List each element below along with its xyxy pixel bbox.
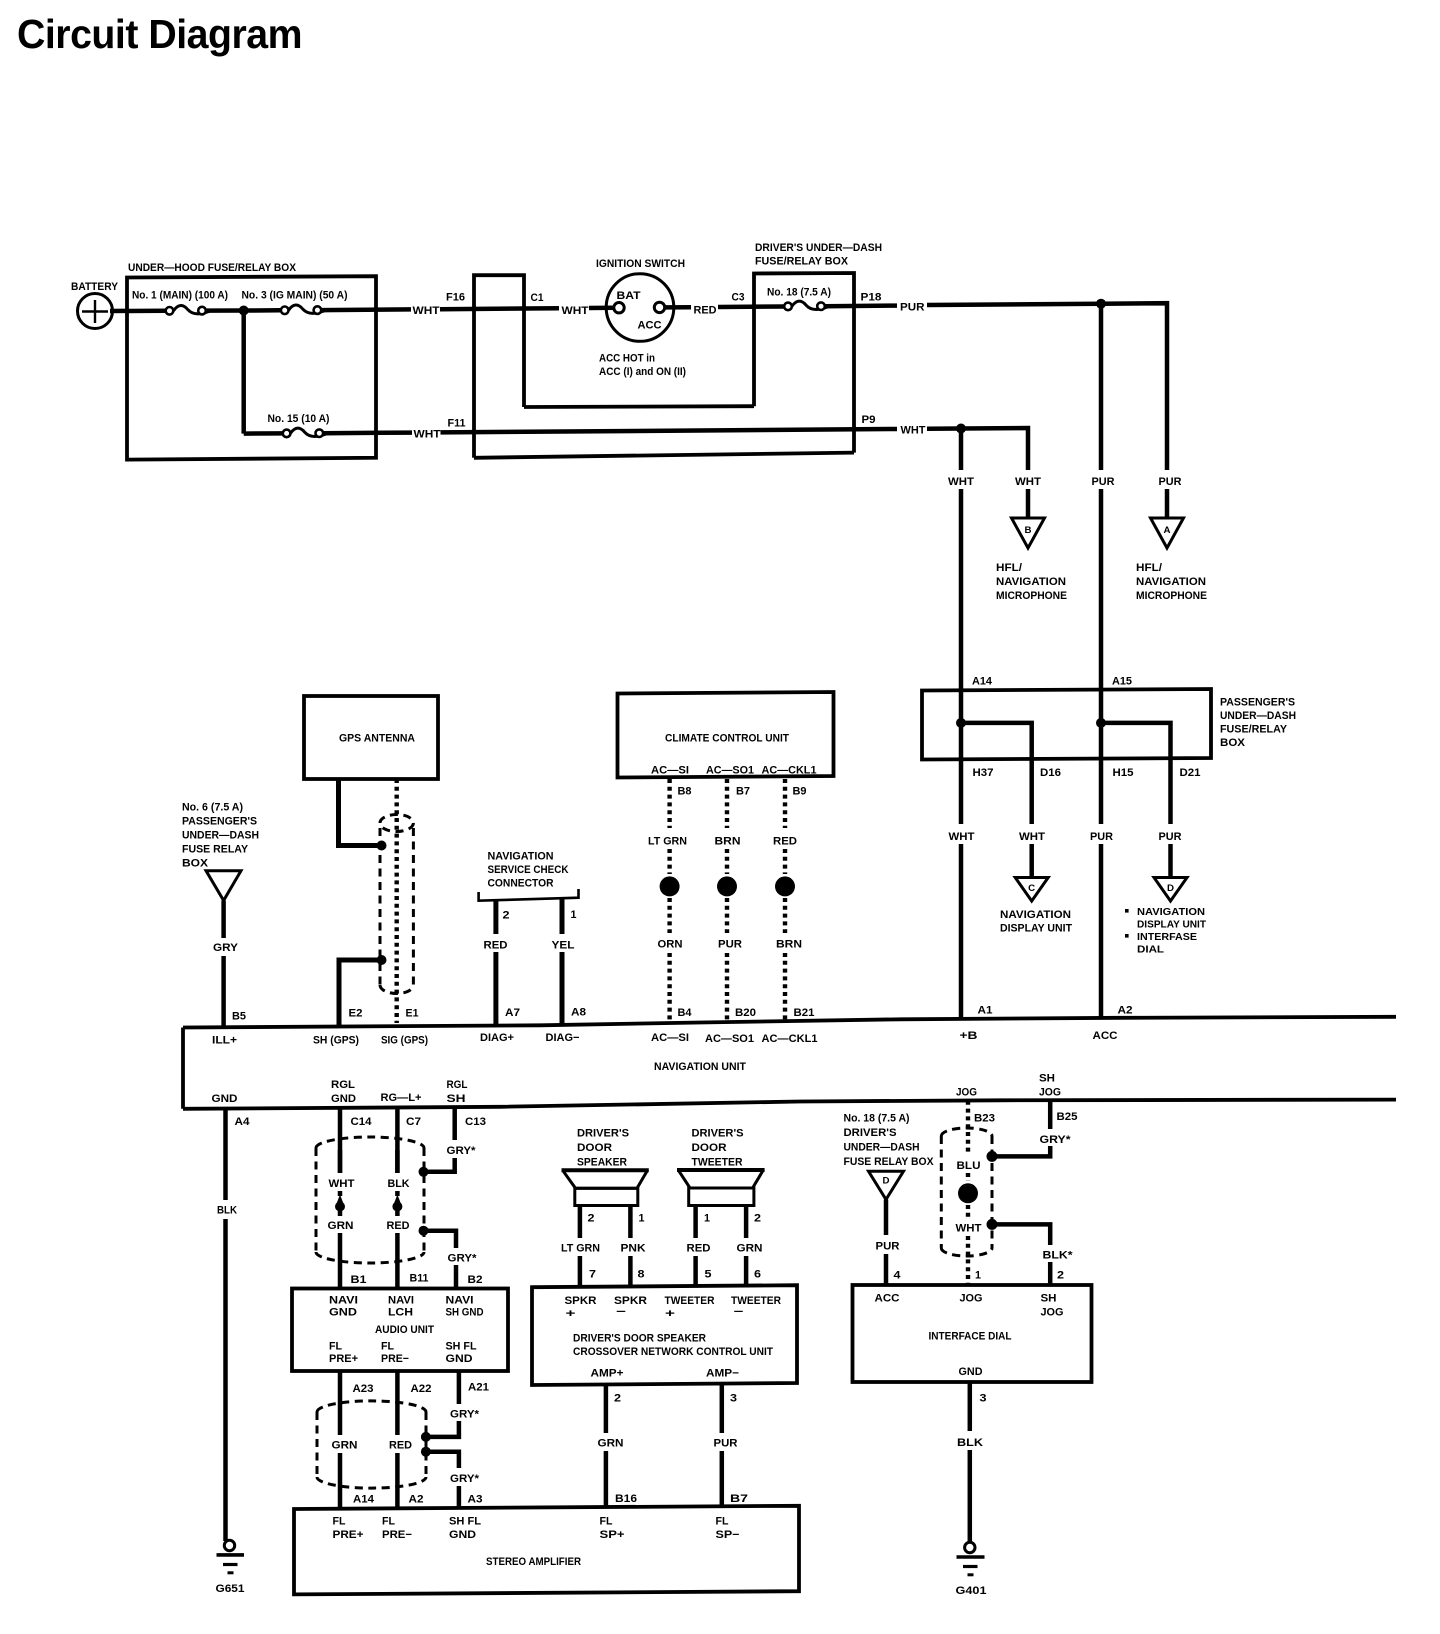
svg-text:BATTERY: BATTERY	[71, 281, 119, 293]
svg-text:SH FL: SH FL	[446, 1341, 477, 1353]
GPS antenna box	[304, 696, 438, 779]
svg-text:JOG: JOG	[960, 1293, 983, 1305]
svg-text:NAVI: NAVI	[446, 1295, 474, 1307]
battery B1	[71, 281, 119, 329]
svg-text:DOOR: DOOR	[692, 1142, 727, 1154]
svg-text:GRY*: GRY*	[450, 1409, 480, 1421]
wire A14 inside box	[959, 690, 964, 759]
svg-text:P9: P9	[862, 414, 876, 426]
svg-text:B1: B1	[351, 1274, 367, 1286]
wire PUR junction down to A15	[1099, 304, 1104, 690]
svg-text:ORN: ORN	[658, 939, 683, 951]
svg-text:WHT: WHT	[948, 476, 974, 488]
wire junction to fuse No.3	[244, 308, 281, 313]
svg-text:PUR: PUR	[876, 1241, 900, 1253]
svg-text:3: 3	[730, 1393, 737, 1405]
svg-text:WHT: WHT	[901, 425, 926, 437]
svg-text:RED: RED	[687, 1243, 711, 1255]
svg-text:+: +	[566, 1308, 576, 1320]
svg-text:B5: B5	[232, 1011, 246, 1023]
navigation unit box	[183, 1017, 1396, 1109]
svg-text:7: 7	[589, 1269, 596, 1281]
wire GRN A23 to A14	[332, 1371, 358, 1509]
connector triangle C	[1015, 878, 1048, 902]
passenger's under-dash fuse/relay box	[922, 689, 1296, 760]
svg-text:NAVIGATION UNIT: NAVIGATION UNIT	[654, 1061, 746, 1073]
svg-text:ACC: ACC	[638, 320, 662, 332]
svg-text:AC—CKL1: AC—CKL1	[762, 1033, 818, 1045]
svg-text:A1: A1	[978, 1005, 993, 1017]
shield dot jog bottom	[987, 1219, 998, 1230]
dotted wire AC-SO1 B7 to B20	[715, 779, 757, 1022]
svg-text:ACC HOT in: ACC HOT in	[599, 353, 655, 365]
junction at fuse box	[239, 306, 249, 316]
svg-text:2: 2	[1057, 1270, 1064, 1282]
svg-text:FUSE/RELAY: FUSE/RELAY	[1220, 724, 1288, 736]
svg-text:RGL: RGL	[447, 1079, 468, 1091]
svg-text:2: 2	[588, 1213, 595, 1225]
label HFL/NAVIGATION MICROPHONE (B)	[996, 562, 1067, 602]
note ACC HOT	[599, 353, 686, 379]
svg-text:UNDER—DASH: UNDER—DASH	[182, 830, 259, 842]
svg-text:INTERFASE: INTERFASE	[1137, 931, 1197, 943]
wire branch to D21	[1101, 723, 1171, 759]
wire YEL pin 1 to A8	[552, 898, 587, 1024]
label NAVIGATION DISPLAY UNIT (C)	[1000, 909, 1072, 935]
svg-text:GND: GND	[331, 1093, 356, 1105]
svg-text:UNDER—HOOD FUSE/RELAY BOX: UNDER—HOOD FUSE/RELAY BOX	[128, 262, 297, 274]
wire WHT corner to triangle B	[1026, 489, 1031, 517]
svg-text:SH FL: SH FL	[449, 1516, 481, 1528]
svg-text:2: 2	[614, 1393, 621, 1405]
svg-text:IGNITION SWITCH: IGNITION SWITCH	[596, 258, 685, 270]
svg-text:PASSENGER'S: PASSENGER'S	[182, 816, 257, 828]
svg-text:B7: B7	[736, 786, 750, 798]
svg-text:DRIVER'S: DRIVER'S	[844, 1127, 897, 1139]
nav unit bottom row labels	[212, 1073, 1062, 1106]
svg-text:GRN: GRN	[598, 1438, 624, 1450]
svg-text:GND: GND	[446, 1353, 473, 1365]
svg-text:1: 1	[975, 1270, 981, 1282]
svg-text:NAVIGATION: NAVIGATION	[1136, 576, 1206, 588]
ground G651	[216, 1540, 245, 1595]
wire PUR triangle D to ACC pin 4	[876, 1200, 902, 1286]
svg-text:DOOR: DOOR	[577, 1142, 612, 1154]
wire PUR D21 to triangle D	[1159, 759, 1182, 877]
svg-text:GND: GND	[449, 1529, 476, 1541]
svg-text:B8: B8	[678, 786, 692, 798]
svg-text:FUSE RELAY: FUSE RELAY	[182, 844, 249, 856]
connector triangle D (No.18)	[869, 1171, 904, 1199]
wire GRY* to B2	[428, 1231, 477, 1289]
svg-text:−: −	[734, 1306, 744, 1318]
pin C13 wire GRY* to shield	[428, 1107, 486, 1172]
svg-text:JOG: JOG	[1041, 1307, 1064, 1319]
svg-text:F16: F16	[446, 292, 465, 304]
wire WHT H37 to A1	[949, 759, 975, 1018]
svg-text:B16: B16	[615, 1493, 637, 1505]
wire GND A4 to G651	[217, 1109, 250, 1542]
svg-text:+: +	[665, 1308, 675, 1320]
connector triangle D	[1154, 878, 1187, 902]
svg-text:LT GRN: LT GRN	[561, 1243, 600, 1255]
svg-text:4: 4	[894, 1270, 902, 1282]
dotted wire AC-CKL1 B9 to B21	[773, 779, 815, 1021]
svg-text:WHT: WHT	[329, 1178, 355, 1190]
wire WHT/GRN C14 to B1	[328, 1150, 355, 1289]
svg-text:5: 5	[705, 1269, 712, 1281]
svg-text:LCH: LCH	[388, 1307, 413, 1319]
svg-text:−: −	[616, 1306, 626, 1318]
svg-text:DIAG−: DIAG−	[546, 1032, 580, 1044]
svg-text:A3: A3	[468, 1494, 483, 1506]
svg-text:G651: G651	[216, 1583, 245, 1595]
svg-text:WHT: WHT	[1019, 831, 1045, 843]
speaker pin 1 wire PNK to pin 8	[621, 1206, 646, 1288]
svg-text:JOG: JOG	[956, 1087, 977, 1099]
under-hood fuse/relay box	[127, 262, 376, 460]
svg-text:B21: B21	[794, 1007, 815, 1019]
svg-text:A4: A4	[235, 1116, 251, 1128]
svg-text:H15: H15	[1113, 767, 1134, 779]
label driver's door speaker	[577, 1128, 629, 1169]
svg-text:A7: A7	[505, 1007, 520, 1019]
ground G401	[956, 1542, 987, 1597]
wire PUR AMP- pin 3 to B7	[714, 1384, 749, 1506]
wire GRY* shield to A3	[430, 1452, 480, 1509]
wire RED ignition ACC to C3	[665, 291, 785, 316]
wire GRN AMP+ pin 2 to B16	[598, 1385, 638, 1507]
svg-text:Circuit Diagram: Circuit Diagram	[17, 11, 302, 57]
nav unit top row labels	[212, 1032, 818, 1047]
wire WHT junction down to A14	[959, 429, 964, 691]
svg-text:SP−: SP−	[716, 1529, 740, 1541]
fuse No.1 (MAIN) (100 A)	[132, 290, 228, 315]
svg-text:RED: RED	[484, 940, 508, 952]
svg-text:No. 3 (IG MAIN) (50 A): No. 3 (IG MAIN) (50 A)	[242, 290, 348, 302]
svg-text:BLK: BLK	[217, 1205, 237, 1217]
svg-text:RED: RED	[387, 1220, 410, 1232]
svg-text:PASSENGER'S: PASSENGER'S	[1220, 697, 1295, 709]
svg-text:GRY*: GRY*	[447, 1145, 477, 1157]
speaker pin 2 wire LT GRN to pin 7	[561, 1206, 600, 1288]
svg-text:PUR: PUR	[1159, 831, 1182, 843]
svg-text:B4: B4	[678, 1007, 693, 1019]
svg-text:TWEETER: TWEETER	[665, 1295, 715, 1307]
svg-text:RG—L+: RG—L+	[381, 1092, 422, 1104]
svg-text:1: 1	[704, 1213, 710, 1225]
jog shield cable cylinder	[941, 1128, 992, 1256]
shield dot jog top	[987, 1151, 998, 1162]
pin labels B1 B11 B2	[351, 1273, 483, 1287]
svg-text:BOX: BOX	[182, 858, 209, 870]
svg-text:BRN: BRN	[776, 939, 802, 951]
wire RED A22 to A2	[389, 1371, 412, 1509]
svg-text:GPS ANTENNA: GPS ANTENNA	[339, 733, 415, 745]
svg-text:BLU: BLU	[957, 1160, 981, 1172]
svg-text:E2: E2	[349, 1008, 363, 1020]
wire WHT C1 to ignition switch BAT	[531, 292, 615, 317]
shield dot lower cylinder top	[421, 1432, 431, 1442]
driver's door speaker crossover network control unit box	[532, 1285, 797, 1385]
svg-text:A22: A22	[411, 1383, 432, 1395]
svg-text:AMP+: AMP+	[591, 1368, 624, 1380]
svg-text:RGL: RGL	[331, 1079, 355, 1091]
svg-text:SH: SH	[447, 1093, 466, 1105]
shield connection dot top	[377, 841, 387, 851]
junction H15 branch	[1096, 718, 1106, 728]
ignition switch enclosure left narrow box	[474, 275, 524, 458]
svg-text:B20: B20	[735, 1007, 756, 1019]
driver's door speaker symbol	[562, 1170, 649, 1205]
wire PUR H15 to A2	[1090, 759, 1113, 1018]
wire GRY to B5	[213, 901, 246, 1028]
shield connection dot bottom	[377, 955, 387, 965]
stereo amplifier box	[294, 1506, 799, 1595]
svg-text:AC—CKL1: AC—CKL1	[762, 765, 817, 777]
svg-text:DRIVER'S: DRIVER'S	[692, 1128, 744, 1140]
svg-text:H37: H37	[973, 767, 994, 779]
svg-text:FL: FL	[716, 1516, 729, 1528]
svg-text:DRIVER'S DOOR SPEAKER: DRIVER'S DOOR SPEAKER	[573, 1333, 706, 1345]
svg-text:A21: A21	[468, 1382, 489, 1394]
svg-text:DIAG+: DIAG+	[480, 1032, 514, 1044]
fuse No.3 (IG MAIN) (50 A)	[242, 290, 348, 315]
svg-text:A: A	[1164, 525, 1172, 535]
svg-text:WHT: WHT	[1015, 476, 1041, 488]
svg-text:TWEETER: TWEETER	[692, 1157, 743, 1169]
svg-text:B11: B11	[410, 1273, 429, 1285]
svg-text:FL: FL	[333, 1516, 346, 1528]
dotted wire AC-SI B8 to B4	[648, 779, 692, 1023]
svg-text:B7: B7	[730, 1493, 748, 1505]
svg-text:SH (GPS): SH (GPS)	[313, 1035, 359, 1047]
svg-text:D16: D16	[1040, 767, 1061, 779]
wire PUR corner to triangle A	[1165, 489, 1170, 517]
svg-text:NAVIGATION: NAVIGATION	[488, 851, 554, 863]
svg-text:PUR: PUR	[714, 1438, 738, 1450]
svg-text:BLK: BLK	[957, 1437, 983, 1449]
svg-text:A14: A14	[972, 676, 993, 688]
svg-text:NAVIGATION: NAVIGATION	[996, 576, 1066, 588]
junction H37 branch	[956, 718, 966, 728]
svg-text:No. 1 (MAIN) (100 A): No. 1 (MAIN) (100 A)	[132, 290, 228, 302]
shield dot lower cylinder bottom	[421, 1447, 431, 1457]
svg-text:PRE+: PRE+	[329, 1353, 358, 1365]
connector triangle B	[1012, 518, 1045, 548]
wire branch to D16	[961, 723, 1032, 759]
svg-text:PUR: PUR	[1159, 476, 1182, 488]
tweeter pin 2 wire GRN to pin 6	[737, 1206, 763, 1287]
svg-text:LT GRN: LT GRN	[648, 836, 687, 848]
svg-text:MICROPHONE: MICROPHONE	[996, 590, 1067, 602]
svg-text:C14: C14	[351, 1116, 373, 1128]
svg-text:FUSE RELAY BOX: FUSE RELAY BOX	[844, 1156, 935, 1168]
svg-text:No. 18 (7.5 A): No. 18 (7.5 A)	[844, 1113, 910, 1125]
svg-text:AC—SO1: AC—SO1	[706, 765, 754, 777]
pin C14 wire	[340, 1108, 372, 1173]
svg-text:B9: B9	[793, 786, 807, 798]
svg-text:ACC: ACC	[875, 1293, 900, 1305]
svg-text:PRE−: PRE−	[381, 1353, 409, 1365]
svg-text:PRE+: PRE+	[333, 1529, 364, 1541]
svg-text:CROSSOVER NETWORK CONTROL UNIT: CROSSOVER NETWORK CONTROL UNIT	[573, 1346, 773, 1358]
svg-text:NAVI: NAVI	[388, 1295, 414, 1307]
svg-text:RED: RED	[773, 836, 797, 848]
shield dot upper cylinder top	[419, 1167, 429, 1177]
wire SH(GPS) from GPS antenna	[339, 779, 378, 846]
svg-text:SP+: SP+	[600, 1529, 625, 1541]
svg-text:NAVI: NAVI	[329, 1295, 358, 1307]
svg-text:WHT: WHT	[414, 428, 441, 440]
pin labels H37 D16 H15 D21	[973, 767, 1201, 779]
svg-text:AMP−: AMP−	[706, 1368, 739, 1380]
svg-text:AC—SI: AC—SI	[651, 765, 689, 777]
label NAVIGATION DISPLAY UNIT / INTERFACE DIAL (D)	[1125, 906, 1207, 956]
svg-text:PUR: PUR	[900, 302, 925, 314]
svg-text:YEL: YEL	[552, 940, 575, 952]
svg-text:No. 18 (7.5 A): No. 18 (7.5 A)	[767, 287, 831, 299]
fuse No.15 (10 A)	[268, 413, 330, 437]
label driver's door tweeter	[692, 1128, 744, 1169]
pin C7 wire	[397, 1108, 421, 1174]
svg-text:SERVICE CHECK: SERVICE CHECK	[488, 864, 569, 876]
svg-text:WHT: WHT	[562, 305, 589, 317]
pin labels A14 A2 A3	[353, 1494, 483, 1506]
svg-text:JOG: JOG	[1039, 1087, 1061, 1099]
svg-text:F11: F11	[448, 417, 466, 429]
svg-text:ACC: ACC	[1093, 1030, 1118, 1042]
svg-text:WHT: WHT	[956, 1223, 982, 1235]
svg-text:2: 2	[503, 909, 510, 921]
wire PUR junction to corner	[1101, 303, 1167, 470]
svg-text:BRN: BRN	[715, 836, 741, 848]
wire RED pin 2 to A7	[484, 900, 521, 1025]
svg-text:A23: A23	[353, 1383, 374, 1395]
dotted wire SIG(GPS) E1	[395, 779, 399, 1023]
wire A15 inside box	[1099, 690, 1104, 759]
svg-text:PUR: PUR	[718, 939, 742, 951]
svg-text:B25: B25	[1057, 1111, 1078, 1123]
wire GRY* B25 to shield	[996, 1100, 1078, 1156]
svg-text:D21: D21	[1180, 767, 1201, 779]
svg-text:FL: FL	[381, 1341, 394, 1353]
svg-text:WHT: WHT	[413, 305, 440, 317]
svg-text:PRE−: PRE−	[382, 1529, 412, 1541]
shield dot upper cylinder bottom	[419, 1226, 429, 1236]
svg-text:B: B	[1025, 525, 1033, 535]
svg-text:C3: C3	[732, 291, 745, 303]
svg-text:FL: FL	[382, 1516, 395, 1528]
svg-text:PUR: PUR	[1092, 476, 1115, 488]
svg-text:RED: RED	[694, 305, 717, 317]
svg-text:SIG (GPS): SIG (GPS)	[381, 1035, 428, 1047]
svg-text:GRN: GRN	[328, 1220, 354, 1232]
svg-text:C7: C7	[406, 1116, 421, 1128]
wire E2 from shield to nav unit	[339, 960, 377, 1025]
svg-text:+B: +B	[960, 1030, 978, 1042]
driver's door tweeter symbol	[677, 1170, 765, 1206]
svg-text:BAT: BAT	[617, 290, 641, 302]
wire WHT fuse No.3 to C1	[321, 292, 559, 317]
svg-text:DIAL: DIAL	[1137, 944, 1165, 956]
svg-text:C13: C13	[465, 1116, 486, 1128]
label HFL/NAVIGATION MICROPHONE (A)	[1136, 562, 1207, 602]
svg-text:SPKR: SPKR	[565, 1295, 597, 1307]
svg-text:B23: B23	[974, 1113, 995, 1125]
interface dial box	[853, 1285, 1092, 1382]
svg-text:FL: FL	[600, 1516, 613, 1528]
svg-text:NAVIGATION: NAVIGATION	[1137, 906, 1205, 918]
svg-text:CONNECTOR: CONNECTOR	[488, 878, 554, 890]
svg-text:C: C	[1028, 883, 1036, 893]
wire WHT junction to corner B	[961, 428, 1028, 470]
svg-text:A14: A14	[353, 1494, 375, 1506]
svg-text:A2: A2	[409, 1494, 424, 1506]
ignition switch enclosure bottom lines	[524, 404, 754, 409]
junction PUR	[1096, 299, 1106, 309]
shield cable cylinder (GPS)	[380, 815, 413, 994]
svg-text:GND: GND	[329, 1307, 357, 1319]
svg-text:G401: G401	[956, 1585, 987, 1597]
svg-text:RED: RED	[389, 1440, 412, 1452]
svg-text:SH GND: SH GND	[446, 1307, 484, 1319]
wire BLK* shield to pin 2	[996, 1224, 1073, 1285]
wire WHT D16 to triangle C	[1019, 759, 1045, 877]
label No.18 driver's under-dash fuse relay box	[844, 1113, 935, 1169]
svg-text:FL: FL	[329, 1341, 342, 1353]
wire BLK GND pin 3 to G401	[957, 1382, 987, 1543]
svg-text:A2: A2	[1118, 1005, 1133, 1017]
svg-text:8: 8	[638, 1269, 645, 1281]
svg-text:UNDER—DASH: UNDER—DASH	[1220, 710, 1296, 722]
wire BLK/RED C7 to B11	[387, 1150, 410, 1289]
tweeter pin 1 wire RED to pin 5	[687, 1206, 712, 1287]
vertical junction wire down to fuse No.15	[241, 311, 246, 434]
svg-text:GRN: GRN	[332, 1440, 358, 1452]
pin labels A23 A22 A21	[353, 1382, 490, 1396]
svg-text:No. 6 (7.5 A): No. 6 (7.5 A)	[182, 802, 243, 814]
svg-text:AC—SO1: AC—SO1	[705, 1033, 754, 1045]
svg-text:P18: P18	[861, 291, 882, 303]
wire battery to fuse No.1	[110, 309, 166, 314]
audio unit box	[292, 1289, 508, 1372]
navigation service check connector	[479, 851, 579, 901]
svg-text:B2: B2	[468, 1274, 483, 1286]
svg-text:DISPLAY UNIT: DISPLAY UNIT	[1000, 923, 1072, 935]
svg-text:BLK: BLK	[388, 1178, 410, 1190]
svg-text:UNDER—DASH: UNDER—DASH	[844, 1142, 920, 1154]
svg-text:GRY*: GRY*	[448, 1253, 478, 1265]
svg-text:WHT: WHT	[949, 831, 975, 843]
svg-text:ILL+: ILL+	[212, 1035, 237, 1047]
connector triangle No.6	[206, 871, 241, 901]
svg-text:DRIVER'S UNDER—DASH: DRIVER'S UNDER—DASH	[755, 242, 882, 254]
audio shield cable cylinder upper	[316, 1137, 424, 1263]
audio shield cable cylinder lower	[317, 1401, 426, 1488]
svg-text:DRIVER'S: DRIVER'S	[577, 1128, 629, 1140]
svg-text:3: 3	[980, 1393, 987, 1405]
svg-text:A15: A15	[1112, 676, 1132, 688]
svg-text:GRY*: GRY*	[1040, 1134, 1072, 1146]
svg-text:HFL/: HFL/	[996, 562, 1022, 574]
svg-text:FUSE/RELAY BOX: FUSE/RELAY BOX	[755, 255, 849, 267]
svg-text:AC—SI: AC—SI	[651, 1032, 689, 1044]
svg-text:INTERFACE DIAL: INTERFACE DIAL	[929, 1331, 1012, 1343]
svg-text:MICROPHONE: MICROPHONE	[1136, 590, 1207, 602]
svg-text:C1: C1	[531, 292, 544, 304]
svg-text:ACC (I) and ON (II): ACC (I) and ON (II)	[599, 366, 686, 378]
